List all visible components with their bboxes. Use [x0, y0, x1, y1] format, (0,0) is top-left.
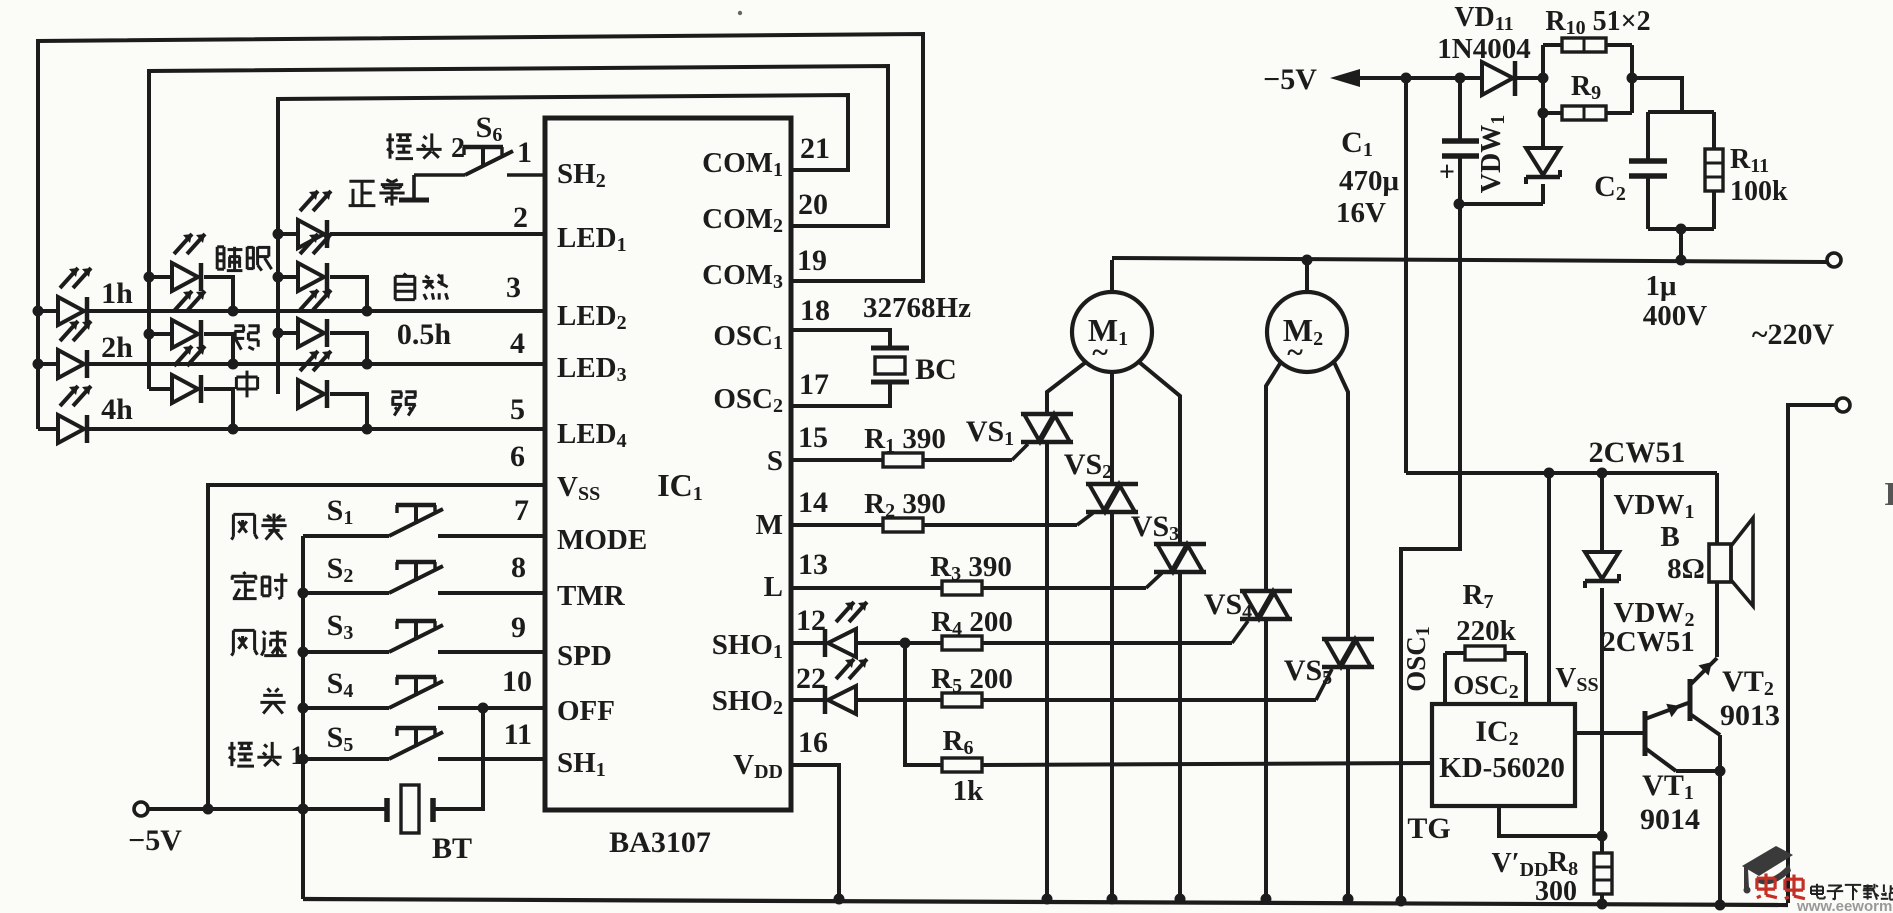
wire IC2 out to VT1 base [1575, 731, 1645, 735]
wire zener to C1 bottom [1459, 184, 1543, 204]
svg-text:11: 11 [504, 718, 532, 751]
LED 中 [172, 346, 205, 403]
svg-text:16: 16 [798, 726, 828, 759]
svg-text:L: L [764, 571, 783, 603]
node row1 anode [273, 229, 284, 240]
switch S5 [303, 728, 545, 759]
node 睡眠/row2 [228, 306, 239, 317]
label 2CW51 b [1601, 626, 1694, 658]
switch S6 fixed contact 摆头2 [463, 147, 503, 166]
IC1 left pin names [557, 158, 647, 781]
svg-text:−5V: −5V [128, 824, 182, 857]
svg-text:COM2: COM2 [702, 203, 783, 237]
svg-text:1N4004: 1N4004 [1437, 33, 1530, 65]
wire R5 to VS5 gate [982, 669, 1332, 700]
wire M1 left leg to VS1 [1047, 362, 1086, 414]
node VDD'/zener line [1597, 831, 1608, 842]
svg-text:12: 12 [796, 604, 826, 637]
node VS4/bus [1261, 894, 1272, 905]
svg-text:www.eeworm.com: www.eeworm.com [1796, 898, 1893, 913]
wire zener to VDD' node [1600, 588, 1604, 853]
switch S6 blade [414, 151, 513, 175]
label B [1660, 521, 1679, 553]
wire pin16 VDD down [791, 765, 839, 899]
label S2 [327, 552, 354, 587]
wire -5V P-line down [1404, 78, 1408, 473]
wire IC2 VDD' stub [1499, 806, 1602, 836]
wire SHO2 to R5 [856, 698, 943, 702]
svg-text:2CW51: 2CW51 [1601, 626, 1694, 658]
label 220k [1456, 615, 1517, 647]
label BC [915, 353, 957, 386]
terminal mains upper [1827, 253, 1841, 267]
label S4 [327, 667, 354, 702]
diode VD11 [1482, 61, 1515, 96]
label VT1 [1642, 769, 1694, 804]
node SHO1/R6 branch [900, 638, 911, 649]
LED row1 (swing indicator) [298, 191, 331, 248]
wire mains line [1112, 258, 1827, 262]
label R1 390 [864, 423, 946, 457]
triac VS3 [1154, 544, 1206, 572]
wire pin14 M row [791, 523, 884, 527]
svg-text:8Ω: 8Ω [1667, 553, 1705, 585]
LED 0.5h [298, 290, 331, 347]
svg-text:220k: 220k [1456, 615, 1517, 647]
label VDW2 [1614, 597, 1695, 631]
crystal BC 32768Hz [871, 348, 909, 382]
svg-text:18: 18 [800, 294, 830, 327]
label R2 390 [864, 488, 946, 522]
wire C1 line down [1401, 204, 1460, 903]
zener VDW1 (melody) [1585, 552, 1619, 588]
label 470u [1339, 165, 1400, 197]
LED SHO1 emitter [825, 602, 867, 657]
speaker B 8ohm [1709, 473, 1753, 606]
resistor R5 200 [942, 693, 982, 707]
svg-text:1k: 1k [953, 775, 985, 807]
battery BT [387, 785, 433, 833]
label 正常 [349, 180, 405, 206]
wire VT to bus [1718, 771, 1722, 905]
svg-text:COM1: COM1 [702, 147, 783, 181]
node VS2/bus [1107, 894, 1118, 905]
label BA3107 [609, 826, 711, 859]
svg-text:COM3: COM3 [702, 259, 783, 293]
label 睡眠 [217, 247, 271, 271]
svg-text:BA3107: BA3107 [609, 826, 711, 859]
resistor R8 300 [1594, 853, 1612, 904]
wire R1 to VS1 gate [923, 444, 1028, 460]
wire LED 中 cathode to row4 [204, 389, 233, 429]
label 2h [101, 331, 133, 364]
svg-text:R4 200: R4 200 [931, 606, 1013, 640]
transistor VT2 9013 [1690, 658, 1720, 771]
label TG [1407, 812, 1450, 845]
svg-text:1h: 1h [101, 277, 133, 310]
wire SHO1 to R4 [856, 641, 943, 645]
svg-text:BT: BT [432, 832, 472, 865]
node row3/left bus [33, 359, 44, 370]
label 9013 [1720, 699, 1780, 732]
svg-text:2h: 2h [101, 331, 133, 364]
watermark 虫虫 [1757, 874, 1805, 899]
svg-text:32768Hz: 32768Hz [863, 292, 971, 324]
label 强 [234, 326, 259, 350]
label VS4 [1204, 588, 1252, 623]
wire OSC2 pin17 [791, 382, 890, 406]
label VS1 [966, 415, 1014, 450]
wire LED 0.5h cathode to row3 [330, 333, 367, 364]
LED 弱 [298, 351, 331, 408]
wire row LED4 (pin 5) [38, 427, 545, 431]
svg-text:M: M [756, 509, 783, 541]
label OSC2 (IC2) [1453, 670, 1519, 703]
node 自然/row2 [362, 306, 373, 317]
label R4 200 [931, 606, 1013, 640]
node -5V/C1 [1455, 73, 1466, 84]
label R7 [1463, 579, 1494, 613]
wire LED 自然 cathode to row2 [330, 277, 367, 311]
label OSC1 (IC2) [1401, 626, 1434, 692]
resistor R4 200 [942, 636, 982, 650]
svg-text:R2 390: R2 390 [864, 488, 946, 522]
svg-text:2CW51: 2CW51 [1589, 436, 1686, 469]
wire LED 0.5h anode [278, 331, 298, 335]
svg-text:OFF: OFF [557, 695, 615, 727]
node 中/row4 [228, 424, 239, 435]
svg-text:9013: 9013 [1720, 699, 1780, 732]
wire VS3 to bus [1178, 572, 1182, 899]
wire row LED1 (pin 2) [330, 232, 545, 236]
label IC1 [657, 467, 703, 505]
svg-text:21: 21 [800, 132, 830, 165]
label ~220V [1752, 318, 1835, 351]
svg-text:2: 2 [513, 201, 528, 234]
wire row LED2 (pin 3) [38, 309, 545, 313]
svg-text:VDW1: VDW1 [1614, 489, 1695, 523]
wire OSC1 pin18 [791, 330, 890, 347]
label VDW1 (supply) [1476, 115, 1509, 193]
wire mains lower to bus [1788, 405, 1836, 903]
wire LED 弱 cathode to row4 [330, 394, 367, 429]
capacitor C1 470u16V [1439, 78, 1479, 204]
svg-text:B: B [1660, 521, 1679, 553]
LED 睡眠 [172, 234, 205, 291]
capacitor C2 [1629, 112, 1667, 229]
svg-text:TMR: TMR [557, 580, 626, 612]
resistor R3 390 [942, 581, 982, 595]
svg-text:MODE: MODE [557, 524, 647, 556]
wire S6 to pin 1 SH2 [507, 173, 545, 177]
wire M1 top [1110, 260, 1114, 292]
node ladder bottom [1676, 224, 1687, 235]
label R10 51x2 [1545, 6, 1650, 39]
wire R2 to VS2 gate [923, 513, 1093, 525]
resistor R11 100k [1705, 112, 1723, 229]
node -5V/P-line [1401, 73, 1412, 84]
svg-text:R5 200: R5 200 [931, 663, 1013, 697]
label 1N4004 [1437, 33, 1530, 65]
wire zener VDW1b stub [1600, 473, 1604, 552]
wire VSS pin6 to switch-common left rail [208, 485, 545, 809]
watermark 电子下载站 [1811, 884, 1893, 900]
wire COM2 loop (pin 20 to middle LED column bus) [149, 66, 888, 389]
node 睡眠 anode [144, 272, 155, 283]
LED 自然 [298, 234, 331, 291]
switch S1 [303, 505, 545, 536]
transistor VT1 9014 [1645, 703, 1720, 771]
svg-text:SHO2: SHO2 [712, 685, 783, 719]
svg-text:4: 4 [510, 327, 525, 360]
wire bottom bus [303, 899, 1788, 905]
svg-text:16V: 16V [1336, 197, 1386, 229]
label C2 [1594, 170, 1626, 205]
svg-text:9014: 9014 [1640, 803, 1700, 836]
wire LED 睡眠 anode [149, 275, 172, 279]
node R8/bus [1597, 899, 1608, 910]
switch S4 [303, 677, 545, 708]
node VSS stub [1544, 468, 1555, 479]
label VS3 [1131, 510, 1179, 545]
label 自然 [395, 274, 447, 300]
wire LED 强 cathode to row3 [204, 334, 233, 364]
wire speaker to VT2 [1715, 582, 1719, 657]
cut-off glyph right edge [1884, 476, 1893, 513]
svg-text:TG: TG [1407, 812, 1450, 845]
label KD-56020 [1439, 752, 1565, 784]
label 300 [1535, 876, 1577, 907]
triac VS4 [1240, 591, 1292, 619]
label 定时 [231, 572, 287, 599]
node 强 anode [144, 329, 155, 340]
label S5 [327, 721, 354, 756]
label 32768Hz [863, 292, 971, 324]
node VS5/bus [1343, 894, 1354, 905]
svg-text:6: 6 [510, 440, 525, 473]
label BT [432, 832, 472, 865]
zener VDW1 (supply) [1526, 113, 1560, 184]
svg-text:10: 10 [502, 665, 532, 698]
label 8ohm [1667, 553, 1705, 585]
label 摆头2 [386, 133, 465, 164]
svg-text:3: 3 [506, 271, 521, 304]
svg-text:100k: 100k [1730, 176, 1788, 207]
label VD11 [1454, 2, 1513, 35]
node 自然 anode [273, 272, 284, 283]
label VDD' [1492, 848, 1549, 881]
node C1-line/bus [1396, 896, 1407, 907]
svg-text:5: 5 [510, 393, 525, 426]
svg-text:8: 8 [511, 551, 526, 584]
svg-text:470μ: 470μ [1339, 165, 1400, 197]
svg-text:1: 1 [517, 136, 532, 169]
label R8 [1548, 847, 1578, 880]
node 0.5h anode [273, 328, 284, 339]
node R9R10 left [1538, 73, 1549, 84]
label 2CW51 top [1589, 436, 1686, 469]
label 9014 [1640, 803, 1700, 836]
svg-text:400V: 400V [1643, 300, 1708, 332]
wire LED 睡眠 cathode to row2 [204, 277, 233, 311]
watermark logo cap [1742, 846, 1793, 894]
node VDD/bus [834, 894, 845, 905]
svg-text:19: 19 [797, 244, 827, 277]
motor M1 [1072, 292, 1152, 372]
svg-text:R10 51×2: R10 51×2 [1545, 6, 1650, 39]
svg-text:4h: 4h [101, 393, 133, 426]
svg-text:LED3: LED3 [557, 352, 627, 386]
resistor R6 1k [942, 758, 982, 772]
wire R3 to VS3 gate [982, 573, 1162, 588]
resistor R9 [1543, 78, 1632, 120]
LED 强 [172, 291, 205, 348]
node S4 bus [298, 703, 309, 714]
label VSS (IC2) [1555, 662, 1598, 696]
label -5V left [128, 824, 182, 857]
LED SHO2 emitter [825, 659, 867, 714]
svg-text:7: 7 [514, 494, 529, 527]
switch S2 [303, 562, 545, 593]
svg-text:~220V: ~220V [1752, 318, 1835, 351]
svg-text:22: 22 [796, 662, 826, 695]
wire 2CW51 top rail [1406, 471, 1717, 475]
node 强/row3 [228, 359, 239, 370]
svg-text:R1 390: R1 390 [864, 423, 946, 457]
label -5V right [1263, 63, 1317, 96]
terminal mains lower [1836, 398, 1850, 412]
label VS2 [1064, 448, 1112, 483]
label 1h [101, 277, 133, 310]
triac VS2 [1086, 484, 1138, 512]
svg-text:13: 13 [798, 548, 828, 581]
LED 1h [58, 268, 91, 325]
wire M1 center leg to VS2 [1110, 372, 1114, 484]
wire battery to OFF row [433, 708, 483, 809]
LED 4h [58, 386, 91, 443]
svg-text:9: 9 [511, 611, 526, 644]
node S5 bus [298, 754, 309, 765]
stray scan speck [738, 11, 742, 15]
wire switch bus vertical [301, 536, 305, 899]
svg-text:SHO1: SHO1 [712, 629, 783, 663]
svg-text:+: + [1439, 157, 1455, 188]
resistor R10 51x2 [1543, 38, 1632, 78]
wire M1 right leg to VS3 [1139, 362, 1180, 544]
resistor R7 220k [1445, 646, 1526, 704]
node battery/OFF [478, 703, 489, 714]
label 0.5h [397, 318, 452, 351]
wire -5V rail [148, 807, 387, 811]
svg-text:−5V: −5V [1263, 63, 1317, 96]
label 中 [236, 371, 257, 398]
svg-text:OSC1: OSC1 [713, 320, 783, 354]
wire VS1 to bus [1045, 442, 1049, 899]
label S1 [327, 494, 354, 529]
wire VS5 to bus [1346, 667, 1350, 899]
node -5V/switch bus [298, 804, 309, 815]
node R9R10 right [1627, 73, 1638, 84]
wire VS4 to bus [1264, 619, 1268, 899]
label 400V [1643, 300, 1708, 332]
wire VS2 to bus [1110, 512, 1114, 899]
svg-text:17: 17 [799, 368, 829, 401]
wire -5V arrow [1330, 69, 1482, 87]
wire COM3 loop (pin 19 to left LED column bus) [38, 34, 923, 429]
svg-text:LED1: LED1 [557, 222, 627, 256]
label 100k [1730, 176, 1788, 207]
svg-text:~: ~ [1092, 336, 1108, 369]
wire row LED3 (pin 4) [38, 362, 545, 366]
resistor R2 390 [883, 518, 923, 532]
node C1 bottom [1454, 199, 1465, 210]
svg-text:BC: BC [915, 353, 957, 386]
wire LED 自然 anode [278, 275, 298, 279]
wire LED 中 anode [149, 387, 172, 391]
IC1 left pin numbers [502, 136, 532, 751]
node VT emitters [1715, 766, 1726, 777]
IC1 right pin names [702, 147, 783, 783]
triac VS5 [1322, 639, 1374, 667]
label 1u [1646, 270, 1678, 302]
switch S3 [303, 621, 545, 652]
wire pin15 S row [791, 458, 884, 462]
node VS3/bus [1175, 894, 1186, 905]
resistor R1 390 [883, 453, 923, 467]
label VT2 [1722, 665, 1774, 700]
svg-text:LED2: LED2 [557, 300, 627, 334]
node M2/mains [1302, 255, 1313, 266]
node VS1/bus [1042, 894, 1053, 905]
node S2 bus [298, 588, 309, 599]
wire VSS stub [1547, 473, 1551, 704]
label 弱 [391, 392, 416, 416]
svg-text:KD-56020: KD-56020 [1439, 752, 1565, 784]
wire R4 to VS4 gate [982, 621, 1248, 643]
label 关 [260, 688, 285, 713]
node 0.5h/row3 [362, 359, 373, 370]
label IC2 [1475, 715, 1518, 750]
IC1 right pin numbers [796, 132, 830, 759]
watermark url [1796, 898, 1893, 913]
wire M2 top [1305, 260, 1309, 292]
label 风速 [231, 630, 286, 655]
wire COM1 loop (pin 21 to right LED column bus) [278, 95, 848, 394]
svg-text:VDW1: VDW1 [1476, 115, 1509, 193]
node 弱/row4 [362, 424, 373, 435]
wire ladder to mains [1679, 229, 1683, 260]
wire LED 强 anode [149, 332, 172, 336]
LED 2h [58, 321, 91, 378]
svg-text:20: 20 [798, 188, 828, 221]
node R9 left / zener [1538, 108, 1549, 119]
wire R6 to IC2 [982, 763, 1432, 765]
wire R6 branch [905, 643, 943, 765]
svg-text:I: I [1884, 476, 1893, 513]
label C1 [1341, 126, 1373, 161]
wire C2R11 bottom rail [1648, 227, 1714, 231]
label 风类 [231, 514, 286, 540]
IC IC1 BA3107 outline [545, 118, 791, 810]
wire pin12 SHO1 row [791, 641, 824, 645]
wire M2 right leg to VS5 [1334, 362, 1348, 639]
svg-text:15: 15 [798, 421, 828, 454]
wire pin13 L row [791, 586, 943, 590]
node VT/bus [1715, 900, 1726, 911]
svg-text:LED4: LED4 [557, 418, 627, 452]
node S3 bus [298, 647, 309, 658]
IC2 KD-56020 outline [1432, 704, 1575, 806]
